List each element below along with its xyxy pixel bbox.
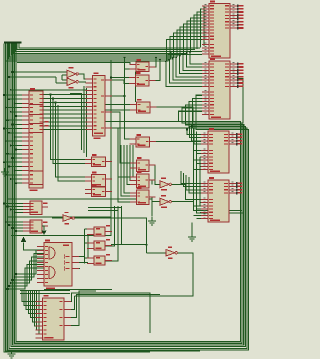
wire vert x196 [197,132,244,214]
IC S1 [85,154,112,166]
IC U6 register stack [22,88,49,191]
wire opto2 out [105,206,115,246]
IC RP6 [130,171,156,188]
ground bottom-left [8,350,16,358]
IC U14 NE556 [37,240,79,290]
IC S2 [85,172,112,187]
wire U14 out1 [72,256,85,258]
IC U2 74LS245 [202,58,244,119]
wire RP1-RP3 link [135,72,137,102]
wire feeds to U15 [22,291,39,334]
wire link y289 [44,289,112,291]
wire U7 out1 [112,80,129,84]
wire U7 out4 [112,128,130,177]
wire U7 out2 [112,95,125,97]
wire RP1 in2b [125,68,137,70]
wire main bus U-loop [4,44,249,352]
wire RP2 in1 [110,77,129,79]
wire feeds to U4 [181,171,201,193]
wire feeds to U3 [186,124,201,144]
gate U5B [67,78,78,88]
wire U14 out3 [72,268,80,270]
wire long link y199 [7,199,152,217]
wire U15 q2 [64,296,74,310]
wire mid right link A [88,207,122,209]
ground right [188,233,196,241]
wire link y122 [105,121,179,123]
IC U12 [23,201,48,215]
IC RP3 [130,99,156,113]
IC U15 decoder [36,295,72,340]
wire gate drop 3 [86,88,88,157]
wire left bus stubs to U13 [5,221,23,232]
wire vert x193 [194,129,243,211]
wire RP1 in1 [17,62,136,64]
gate U10B [160,195,171,208]
IC U18 opto [87,239,112,250]
IC U7 counter [86,72,113,139]
power down arrow U13 [41,231,46,235]
wire U5A out [79,74,86,79]
wire RP3 in1 [100,104,130,106]
wire U10B out [172,201,194,203]
IC RP7 [130,187,156,204]
wire opto3 out [105,206,118,261]
wire U13 out drop [42,226,44,230]
wire U7 pin risers [50,94,85,181]
wire top bus origin bar [4,41,22,43]
IC U19 opto [87,254,112,265]
wire U15 q1 [64,293,150,333]
wire left bus stubs to U12 [3,203,23,214]
IC S3 [85,184,112,196]
wire U15 q3 [64,295,160,318]
wire bottom link a [20,290,70,292]
IC RP1 [130,59,156,71]
wire vert x200 [199,157,201,206]
wire left bus stubs to U6 stack [3,94,22,184]
gate U9A inverter [63,212,74,225]
gate U5A [67,67,78,78]
wire RP6 out to U10A [150,180,153,184]
wire U14 out2 [72,262,88,264]
wire U7 out3 [112,112,130,163]
wire U16 in feed [111,244,147,246]
wire RP2 out [149,58,161,80]
IC RP2 [129,72,156,86]
wire gate U5 inputs [8,71,67,83]
wire gate drop 2 [83,86,85,153]
wire staircase to U2 upper pins [165,51,202,87]
wire U10A out [172,184,202,199]
wire U5B out [79,81,86,83]
wire mid right link B [88,210,118,212]
power VCC arrow [21,237,27,243]
IC U17 opto [87,225,112,236]
wire RP1 out [149,57,157,67]
IC U1 74LS245 [202,1,244,59]
ground left-edge [1,168,9,176]
wire U16 in [147,252,167,254]
IC RP4 [130,134,157,147]
wire VCC drop [24,243,45,251]
gate U16A inverter [166,247,177,259]
wire U4 to ground [191,223,193,234]
junction dots top bar [5,42,20,44]
wire long link y236 [11,235,112,237]
wire RP3 out [150,107,193,122]
IC U13 [23,220,48,233]
wire opto input links [85,229,95,264]
wire opto1 out [105,206,111,232]
wire bus taps to U14 [7,250,45,290]
wire U2 pin to right bus [237,79,243,124]
wire RP1 in2 [124,57,130,140]
wire RP5 out to U10A [150,165,161,184]
wire bottom link b [20,293,70,295]
wire RP7 out to U10B [149,197,160,202]
wire long link y217 [8,216,111,218]
wire RP4 out [150,141,202,143]
wire link y90 [10,89,86,91]
wire RP3 in2 [100,109,130,111]
IC U4 74LS193 [201,177,243,222]
wire U16 out loop [74,253,193,296]
wire link y128 [100,127,193,129]
wire U6 outputs to U7 pins [43,95,86,130]
IC RP5 [130,157,156,171]
wire stubs to U3 U4 lower pins [194,151,202,219]
wire U15 q4 [64,291,96,326]
wire U9 out [73,218,147,253]
wire bus fan [6,44,202,61]
gate U10A [160,178,171,191]
wire center bundle [118,145,136,202]
wire staircase to U1 pins [167,6,204,61]
wire vert x121 [121,206,123,245]
wire center vertical x110 [110,60,112,236]
ground mid [148,217,156,225]
IC U3 74LS193 [201,128,243,173]
wire gate drop 1 [70,94,82,151]
wire U9 in [52,217,63,219]
